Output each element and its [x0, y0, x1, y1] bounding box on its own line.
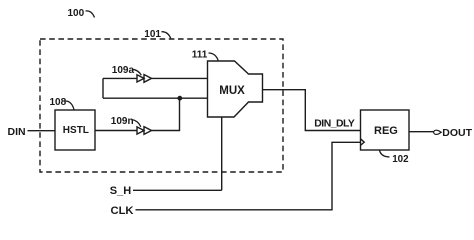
leader for 102 [380, 150, 390, 157]
wire CLK [136, 142, 361, 210]
svg-text:101: 101 [144, 29, 161, 40]
svg-text:109a: 109a [112, 65, 135, 76]
clock wedge on REG [361, 139, 365, 146]
svg-text:DOUT: DOUT [442, 127, 472, 139]
svg-text:109n: 109n [111, 116, 134, 127]
wire DIN input [28, 130, 56, 132]
leader for 100 [86, 11, 95, 18]
wire REG output [409, 131, 434, 133]
wire upper mux input [103, 77, 137, 79]
leader for 109n [132, 120, 141, 127]
svg-text:111: 111 [192, 50, 208, 61]
svg-text:HSTL: HSTL [63, 125, 89, 136]
svg-text:102: 102 [392, 154, 409, 165]
wire buffer 109n to riser [152, 98, 180, 130]
leader for 108 [65, 101, 74, 110]
mux MUX 111 body [208, 61, 263, 117]
leader for 101 [162, 32, 171, 39]
svg-text:DIN: DIN [8, 126, 26, 138]
svg-text:S_H: S_H [110, 185, 131, 197]
wire mux select [221, 117, 223, 190]
svg-text:CLK: CLK [111, 205, 134, 217]
wire lower mux input [103, 97, 208, 99]
wire HSTL output [95, 130, 137, 132]
wire S_H [133, 189, 222, 191]
wire mux output DIN_DLY [263, 90, 361, 131]
leader for 109a [133, 69, 142, 75]
dashed box 101 [40, 39, 283, 172]
junction dot node [177, 96, 182, 101]
wire vertical connector left [102, 78, 104, 98]
buffer 109a (double triangle) [137, 75, 152, 83]
svg-text:MUX: MUX [219, 85, 245, 97]
leader for 111 [209, 53, 219, 61]
svg-text:DIN_DLY: DIN_DLY [314, 119, 355, 130]
register REG 102 box [361, 110, 410, 150]
buffer 109n (double triangle) [137, 127, 152, 135]
svg-text:REG: REG [374, 125, 398, 137]
wire buffer 109a to mux [152, 77, 208, 79]
svg-text:100: 100 [68, 8, 85, 19]
block HSTL 108 [55, 110, 95, 150]
output terminal symbol DOUT [434, 130, 442, 134]
svg-text:108: 108 [50, 97, 67, 108]
